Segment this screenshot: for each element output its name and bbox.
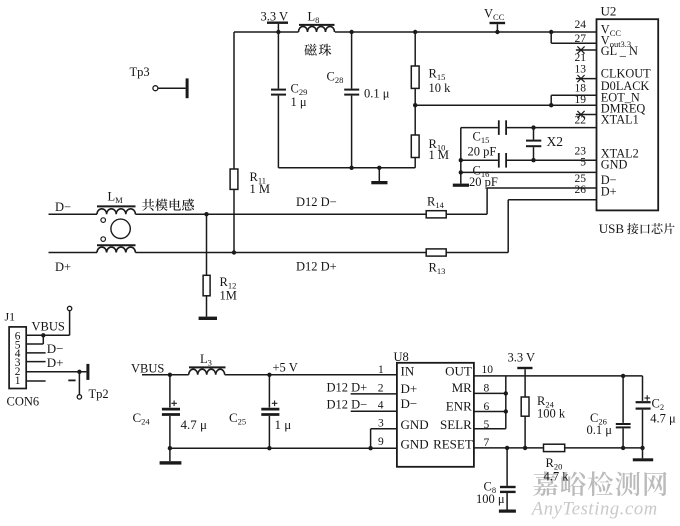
- pin GL_N stub: [576, 46, 597, 53]
- watermark jiayu: [533, 471, 667, 496]
- wire pin5 gnd: [461, 171, 597, 173]
- svg-text:MR: MR: [452, 380, 473, 395]
- svg-text:ENR: ENR: [446, 398, 472, 413]
- svg-text:GND: GND: [601, 158, 628, 172]
- svg-text:GL _ N: GL _ N: [601, 44, 638, 58]
- svg-text:10: 10: [482, 364, 494, 376]
- wire VBUS feed: [131, 362, 189, 377]
- svg-text:X2: X2: [547, 134, 564, 149]
- svg-text:4.7 μ: 4.7 μ: [650, 411, 676, 425]
- wire R14 to pin25: [446, 188, 596, 214]
- label cizhu: [304, 44, 331, 56]
- resistor R20: [544, 444, 570, 483]
- wire pins 8-6-5 tie: [474, 376, 508, 431]
- svg-text:D+: D+: [401, 381, 418, 396]
- wire J1 pin3 D+: [26, 355, 63, 370]
- svg-text:R13: R13: [429, 261, 446, 277]
- svg-text:0.1 μ: 0.1 μ: [364, 86, 390, 100]
- svg-text:VBUS: VBUS: [32, 320, 65, 334]
- wire pin4 stub: [327, 397, 397, 411]
- test point Tp3: [130, 65, 189, 98]
- svg-text:24: 24: [575, 19, 587, 31]
- wire R13 to pin26: [446, 200, 596, 253]
- svg-text:18: 18: [575, 83, 587, 95]
- svg-text:RESET: RESET: [433, 437, 473, 452]
- label CON6: [7, 394, 40, 408]
- wire J1 pin5: [26, 335, 43, 344]
- svg-text:2: 2: [378, 382, 384, 394]
- ground R12: [199, 317, 217, 320]
- resistor R10: [411, 105, 449, 168]
- svg-text:1: 1: [15, 375, 21, 387]
- svg-text:1 M: 1 M: [429, 148, 450, 162]
- svg-text:C24: C24: [133, 410, 151, 427]
- wire R15-R10 node to pin19: [415, 103, 596, 107]
- resistor R15: [411, 30, 451, 108]
- power 3.3V bottom: [508, 350, 536, 397]
- svg-text:D+: D+: [601, 184, 617, 198]
- svg-text:L3: L3: [200, 352, 212, 368]
- svg-text:100 k: 100 k: [537, 406, 566, 420]
- svg-text:4.7 μ: 4.7 μ: [181, 417, 208, 432]
- label gongmo-diangan: [142, 199, 194, 211]
- wire D+ line: [49, 252, 427, 254]
- capacitor C26: [587, 376, 631, 450]
- resistor R24: [521, 394, 566, 450]
- svg-text:1 μ: 1 μ: [291, 95, 307, 109]
- connector J1 pin numbers: [15, 331, 21, 387]
- svg-text:22: 22: [575, 114, 587, 126]
- svg-text:3.3 V: 3.3 V: [261, 10, 289, 24]
- wire J1 pin1: [26, 380, 45, 382]
- svg-text:8: 8: [484, 383, 490, 395]
- wire J1 pin4 D-: [26, 341, 63, 356]
- svg-text:27: 27: [575, 33, 587, 45]
- ground decoupling: [371, 168, 387, 185]
- svg-text:AnyTesting.com: AnyTesting.com: [530, 498, 658, 519]
- svg-text:5: 5: [484, 419, 490, 431]
- svg-text:7: 7: [484, 437, 490, 449]
- svg-text:C25: C25: [229, 410, 246, 427]
- test point Tp2: [68, 364, 108, 401]
- wire 3.3V rail: [234, 31, 597, 33]
- label D12 D- top: [296, 195, 337, 209]
- IC U2 pin numbers: [575, 19, 587, 196]
- svg-text:J1: J1: [5, 309, 16, 323]
- svg-text:6: 6: [484, 401, 490, 413]
- wire pin7 line: [474, 437, 544, 450]
- svg-text:L8: L8: [308, 10, 320, 26]
- label D12 D+ top: [296, 260, 337, 274]
- capacitor C2: [636, 376, 676, 448]
- svg-text:LM: LM: [108, 190, 124, 206]
- svg-text:D−: D−: [47, 341, 64, 356]
- svg-text:26: 26: [575, 184, 587, 196]
- svg-text:4: 4: [378, 399, 384, 411]
- svg-text:1 M: 1 M: [250, 182, 271, 196]
- resistor R12: [203, 214, 237, 316]
- svg-text:GND: GND: [401, 417, 429, 432]
- IC U8 box: [394, 350, 474, 467]
- svg-text:R15: R15: [429, 67, 446, 83]
- svg-text:XTAL1: XTAL1: [601, 113, 639, 127]
- svg-text:20 pF: 20 pF: [468, 144, 497, 158]
- power 3.3V: [261, 10, 289, 35]
- svg-text:C15: C15: [473, 130, 490, 146]
- wire J1 pin6 VBUS: [26, 320, 69, 338]
- wire pin18 branch: [551, 95, 596, 105]
- svg-text:4.7 k: 4.7 k: [544, 469, 570, 483]
- test point VBUS: [67, 306, 71, 335]
- capacitor C29: [271, 32, 307, 168]
- wire pin27 branch: [549, 30, 597, 43]
- svg-text:D12 D−: D12 D−: [327, 397, 368, 411]
- capacitor C16: [459, 153, 597, 189]
- svg-text:VBUS: VBUS: [131, 362, 164, 376]
- pin DMREQ stub: [576, 111, 597, 118]
- wire pin3 loop: [371, 429, 397, 448]
- svg-text:D+: D+: [47, 355, 64, 370]
- inductor L8: [299, 10, 335, 33]
- wire J1 pin2: [26, 370, 86, 374]
- watermark anytesting: [530, 498, 658, 519]
- svg-text:+5 V: +5 V: [273, 361, 298, 375]
- wire decoupling bottom rail: [278, 166, 415, 170]
- pin CLKOUT stub: [576, 75, 597, 82]
- capacitor C25: [229, 375, 291, 448]
- capacitor C28: [327, 32, 390, 168]
- IC U2 box: [597, 4, 659, 211]
- node C28 top: [349, 30, 353, 34]
- crystal X2: [526, 128, 563, 161]
- svg-text:Tp3: Tp3: [130, 65, 150, 79]
- ground C24: [160, 448, 182, 464]
- U8 left pin numbers: [378, 364, 384, 448]
- wire pin2 stub: [327, 380, 397, 394]
- ground C2: [633, 448, 653, 461]
- resistor R13: [426, 249, 446, 276]
- svg-text:1 μ: 1 μ: [275, 417, 292, 432]
- svg-text:D12 D−: D12 D−: [296, 195, 337, 209]
- svg-text:VCC: VCC: [484, 7, 505, 23]
- svg-text:21: 21: [575, 52, 587, 64]
- svg-text:3.3 V: 3.3 V: [508, 350, 536, 364]
- svg-text:13: 13: [575, 63, 587, 75]
- svg-text:10 k: 10 k: [429, 81, 452, 95]
- svg-text:D−: D−: [55, 200, 71, 214]
- svg-text:R14: R14: [427, 195, 445, 211]
- svg-text:U8: U8: [394, 350, 409, 364]
- capacitor C24: [133, 375, 208, 448]
- ground C8: [499, 510, 516, 513]
- wire R20 right: [565, 446, 645, 450]
- svg-text:CON6: CON6: [7, 394, 40, 408]
- ground crystal: [453, 172, 469, 186]
- resistor R14: [426, 195, 446, 218]
- capacitor C8: [476, 448, 516, 510]
- svg-text:Tp2: Tp2: [89, 387, 109, 401]
- svg-text:D−: D−: [401, 396, 418, 411]
- wire gnd rail pin9: [168, 446, 397, 450]
- svg-text:0.1 μ: 0.1 μ: [587, 423, 613, 437]
- connector J1 box: [5, 309, 27, 388]
- common-mode choke LM: [97, 190, 136, 253]
- svg-text:100 μ: 100 μ: [476, 492, 505, 506]
- svg-text:D12 D+: D12 D+: [327, 380, 368, 394]
- wire D- line: [49, 212, 427, 216]
- svg-text:20 pF: 20 pF: [469, 175, 498, 189]
- svg-text:5: 5: [580, 156, 586, 168]
- power VCC: [484, 7, 505, 35]
- svg-text:1: 1: [378, 364, 384, 376]
- svg-text:OUT: OUT: [445, 364, 472, 379]
- svg-text:USB: USB: [599, 221, 625, 236]
- svg-text:C28: C28: [327, 70, 344, 86]
- label D+: [55, 260, 71, 274]
- svg-text:U2: U2: [601, 4, 617, 19]
- IC U8 pin names: [401, 364, 473, 452]
- svg-text:GND: GND: [401, 437, 429, 452]
- svg-text:D12 D+: D12 D+: [296, 260, 337, 274]
- label USB chip: [599, 221, 675, 236]
- wire crystal gnd vertical: [459, 128, 463, 175]
- svg-text:9: 9: [378, 436, 384, 448]
- wire pin10 rail: [474, 364, 643, 378]
- svg-text:IN: IN: [401, 364, 415, 379]
- svg-text:3: 3: [378, 418, 384, 430]
- svg-text:D+: D+: [55, 260, 71, 274]
- svg-text:19: 19: [575, 94, 587, 106]
- inductor L3: [189, 352, 226, 375]
- resistor R11: [230, 32, 270, 255]
- label D-: [55, 200, 71, 214]
- svg-text:1M: 1M: [220, 288, 237, 302]
- svg-text:C2: C2: [652, 396, 665, 412]
- IC U2 pin names: [601, 23, 651, 199]
- svg-text:SELR: SELR: [440, 417, 472, 432]
- capacitor C15: [461, 120, 597, 158]
- wire +5V to pin1: [225, 361, 397, 377]
